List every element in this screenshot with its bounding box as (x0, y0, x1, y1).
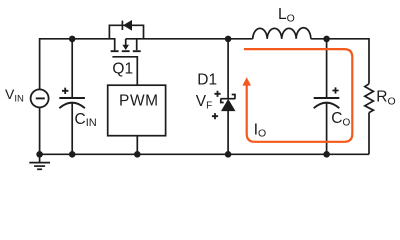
junction dot Co bottom (323, 151, 330, 158)
diode D1 (schottky) (221, 99, 236, 111)
junction dot PWM bottom (134, 151, 141, 158)
plus sign CO polarity (332, 87, 338, 93)
wire top rail right of Q1 to inductor (126, 38, 253, 40)
wire Co branch bottom (326, 103, 328, 155)
svg-text:RO: RO (376, 88, 395, 107)
wire Ro bottom (368, 113, 370, 155)
resistor RO (365, 84, 374, 113)
junction dot Vin bottom (36, 151, 43, 158)
wire Vin bottom (39, 107, 41, 154)
ground (29, 154, 50, 169)
junction dot Cin top (69, 36, 76, 43)
junction dot Cin bottom (69, 151, 76, 158)
current loop IO arrowhead (242, 77, 251, 85)
current loop IO (orange) (244, 49, 352, 142)
wire bottom rail (40, 153, 369, 155)
svg-text:IO: IO (254, 122, 267, 140)
wire D1 branch top (227, 39, 229, 99)
wire PWM gate connection (112, 57, 137, 85)
junction dot D1 top (225, 36, 232, 43)
wire PWM bottom stub (136, 136, 138, 155)
svg-text:D1: D1 (197, 72, 217, 89)
plus sign CIN polarity (62, 88, 68, 94)
svg-text:Q1: Q1 (112, 61, 133, 78)
transistor Q1 MOSFET (111, 39, 141, 51)
wire Cin branch top (71, 39, 73, 97)
plus sign below VF (212, 113, 218, 119)
svg-text:VIN: VIN (5, 86, 24, 105)
wire top rail left (Vin top to Q1 drain) (40, 39, 115, 89)
wire Cin branch bottom (71, 103, 73, 155)
voltage source VIN (31, 89, 49, 107)
transistor Q1 body diode (109, 21, 143, 39)
plus sign above VF (214, 91, 220, 97)
svg-text:VF: VF (196, 93, 212, 111)
junction dot Co top (323, 36, 330, 43)
inductor LO (253, 28, 311, 39)
svg-text:LO: LO (278, 6, 295, 24)
wire Co branch top (326, 39, 328, 97)
capacitor CIN (59, 98, 85, 108)
wire inductor output to Ro top corner (311, 39, 369, 84)
PWM controller block (108, 85, 166, 136)
capacitor CO (314, 98, 340, 108)
svg-text:CIN: CIN (75, 111, 97, 129)
svg-text:PWM: PWM (119, 93, 159, 110)
junction dot D1 bottom (225, 151, 232, 158)
svg-text:CO: CO (331, 110, 350, 128)
wire D1 branch bottom (227, 111, 229, 154)
